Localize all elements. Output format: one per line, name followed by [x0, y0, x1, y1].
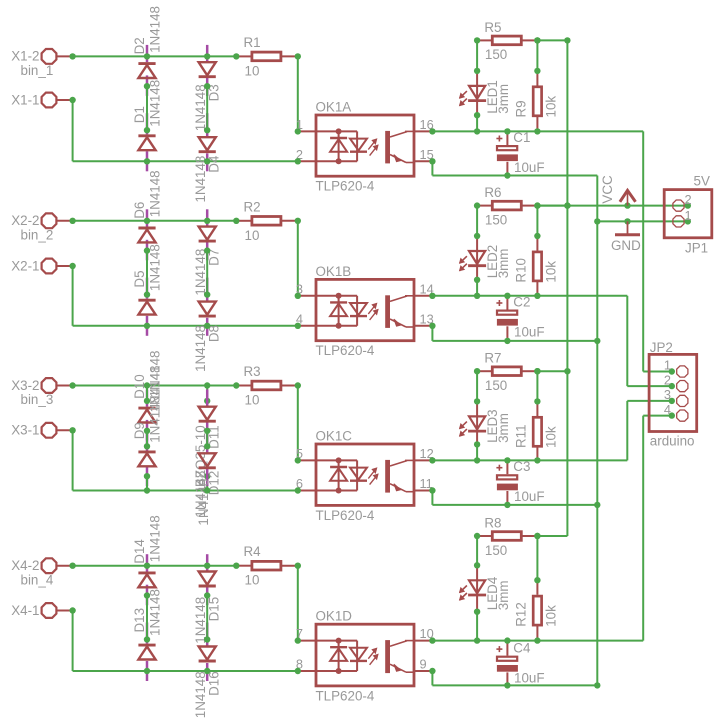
value 10: [245, 573, 260, 588]
wire top rail: [73, 55, 237, 57]
value 10uF: [514, 324, 545, 339]
value 150: [485, 47, 507, 62]
svg-text:R2: R2: [244, 199, 261, 214]
value 3mm: [496, 413, 511, 443]
wire: [536, 40, 538, 71]
label GND: [611, 238, 641, 253]
label R10: [513, 258, 528, 283]
svg-text:X2-1: X2-1: [11, 258, 39, 273]
connector pad X4-2: [42, 558, 73, 573]
junction: [534, 37, 570, 539]
label LED4: [485, 576, 500, 610]
wire ch1 to JP2 pin1: [643, 131, 672, 371]
capacitor C4: [496, 641, 518, 686]
label 5V: [694, 174, 710, 189]
value 10: [245, 393, 260, 408]
svg-text:TLP620-4: TLP620-4: [316, 179, 375, 194]
label D14: [132, 539, 147, 564]
pin 9: [420, 657, 427, 672]
connector pad X4-1: [42, 603, 73, 618]
diode D16: [199, 647, 216, 662]
junction: [429, 158, 435, 164]
label R7: [484, 351, 501, 366]
value 3mm: [496, 84, 511, 114]
power symbol VCC: [620, 190, 636, 205]
svg-text:D13: D13: [132, 608, 147, 633]
resistor R2: [236, 217, 297, 226]
value 10: [245, 63, 260, 78]
value 1N4148: [193, 156, 208, 203]
label R3: [244, 364, 261, 379]
wire: [536, 536, 538, 580]
wire: [147, 386, 207, 401]
value 1N4148: [147, 515, 162, 562]
junction: [144, 83, 150, 133]
wire mid B: [206, 251, 208, 295]
value 1N4148 duplicate: [147, 365, 162, 412]
wire mid A: [146, 251, 148, 295]
value 10k: [544, 96, 559, 118]
junction: [429, 293, 435, 299]
junction: [295, 457, 301, 494]
junction: [144, 158, 211, 164]
label OK1A: [316, 100, 352, 115]
svg-text:X4-1: X4-1: [11, 603, 39, 618]
wire to opto pin: [297, 386, 299, 461]
junction: [534, 577, 540, 583]
pin 2: [685, 192, 692, 207]
svg-text:C1: C1: [513, 130, 530, 145]
svg-text:1: 1: [664, 358, 671, 373]
label R6: [484, 185, 501, 200]
diode D4: [199, 137, 216, 152]
label D11: [206, 425, 221, 449]
junction: [204, 428, 210, 450]
junction: [69, 218, 75, 224]
value 10k: [544, 261, 559, 283]
svg-text:150: 150: [485, 543, 507, 558]
wire top rail: [73, 220, 237, 222]
label X4-2: [11, 558, 39, 573]
junction: [564, 202, 631, 224]
svg-text:3mm: 3mm: [496, 249, 511, 279]
junction: [474, 609, 480, 644]
wire VCC vertical: [537, 40, 567, 536]
junction: [295, 563, 301, 569]
label D8: [206, 325, 221, 342]
svg-text:10k: 10k: [544, 96, 559, 118]
svg-text:D1: D1: [132, 106, 147, 123]
wire ch3 to JP2 pin3: [627, 401, 672, 461]
wire to cap rail: [432, 326, 597, 341]
pin 5: [296, 446, 303, 461]
svg-text:VCC: VCC: [600, 175, 615, 204]
wire opto out rail: [432, 295, 627, 297]
connector pad X1-1: [42, 93, 73, 108]
junction: [534, 233, 540, 239]
value TLP620-4: [316, 179, 375, 194]
svg-text:10: 10: [245, 573, 260, 588]
junction: [144, 247, 150, 297]
svg-text:X1-1: X1-1: [11, 92, 39, 107]
junction: [69, 563, 75, 569]
resistor R4: [236, 561, 297, 570]
svg-text:10: 10: [245, 393, 260, 408]
svg-text:bin_4: bin_4: [21, 572, 54, 587]
wire X-1 stub: [73, 100, 298, 161]
label OK1C: [316, 429, 353, 444]
junction: [474, 202, 480, 208]
pin 10: [420, 626, 434, 641]
label X2-2: [11, 213, 39, 228]
led LED4: [460, 565, 487, 611]
junction: [474, 233, 480, 239]
optocoupler OK1C: [298, 444, 433, 505]
svg-text:D5: D5: [132, 270, 147, 287]
label X2-1: [11, 258, 39, 273]
svg-text:R12: R12: [513, 602, 528, 627]
diode D3: [199, 62, 216, 76]
junction: [144, 382, 211, 388]
junction: [233, 382, 239, 388]
junction: [534, 368, 540, 374]
wire: [536, 206, 538, 236]
diode D12: [199, 453, 216, 468]
junction: [429, 457, 435, 463]
resistor R8: [477, 532, 537, 541]
led LED1: [460, 71, 487, 115]
pin 1: [296, 117, 303, 132]
diode D16 pins: [206, 623, 209, 682]
junction: [144, 398, 211, 404]
wire mid B: [206, 86, 208, 130]
wire: [476, 115, 478, 131]
wire: [476, 612, 478, 641]
svg-text:D16: D16: [206, 671, 221, 696]
wire: [476, 206, 478, 236]
label LED3: [485, 409, 500, 443]
junction: [534, 293, 540, 299]
label D1: [132, 106, 147, 123]
label D12: [206, 471, 221, 496]
label X1-1: [11, 92, 39, 107]
svg-text:R5: R5: [484, 20, 501, 35]
net name bin_2: [21, 227, 54, 242]
junction: [504, 457, 510, 508]
svg-text:2: 2: [664, 372, 671, 387]
connector pad X2-1: [42, 259, 73, 274]
diode D1: [138, 136, 155, 150]
svg-text:R4: R4: [244, 544, 262, 559]
label LED2: [485, 245, 500, 279]
value BZQ35-10: [193, 425, 208, 487]
svg-text:bin_1: bin_1: [21, 63, 54, 78]
label R5: [484, 20, 501, 35]
value 10k: [544, 426, 559, 448]
svg-text:3mm: 3mm: [496, 84, 511, 114]
resistor R5: [477, 36, 537, 45]
label D6: [132, 202, 147, 219]
label D5: [132, 270, 147, 287]
junction: [504, 128, 510, 179]
label X4-1: [11, 603, 39, 618]
value 1N4148: [147, 80, 162, 127]
wire ch2 to JP2 pin2: [627, 296, 672, 386]
svg-text:1N4148: 1N4148: [147, 515, 162, 562]
connector pad X3-1: [42, 423, 73, 438]
svg-text:R10: R10: [513, 258, 528, 283]
net name bin_1: [21, 63, 54, 78]
junction: [233, 563, 239, 569]
junction: [295, 293, 301, 329]
junction: [504, 637, 510, 688]
svg-text:X4-2: X4-2: [11, 558, 39, 573]
svg-text:10: 10: [245, 228, 260, 243]
svg-text:10uF: 10uF: [514, 160, 545, 175]
wire GND rail to JP1: [597, 220, 688, 222]
connector JP1: [664, 190, 712, 238]
svg-text:arduino: arduino: [650, 434, 695, 449]
junction: [534, 128, 540, 134]
junction: [594, 338, 600, 689]
wire to cap rail: [432, 161, 597, 175]
value TLP620-4: [316, 343, 375, 358]
capacitor C3: [496, 460, 518, 505]
svg-text:bin_2: bin_2: [21, 227, 54, 242]
svg-text:X3-2: X3-2: [11, 378, 39, 393]
pin 1: [685, 208, 692, 223]
svg-text:3mm: 3mm: [496, 413, 511, 443]
diode D15 pins: [206, 554, 209, 605]
value JP1: [685, 240, 708, 255]
label D4: [206, 155, 221, 173]
diode D9 pins: [146, 429, 149, 486]
diode D11 pins: [206, 389, 209, 440]
pin 1: [664, 358, 671, 373]
value 1N4148: [193, 671, 208, 718]
wire opto out rail: [432, 459, 627, 461]
label C2: [513, 295, 530, 310]
svg-text:OK1D: OK1D: [316, 609, 353, 624]
junction: [534, 398, 540, 404]
junction: [429, 668, 435, 674]
wire: [476, 280, 478, 296]
junction: [474, 68, 480, 74]
label OK1B: [316, 264, 352, 279]
junction: [669, 368, 675, 419]
svg-text:1N4148: 1N4148: [147, 170, 162, 217]
pin 6: [296, 476, 303, 491]
diode D1 pins: [146, 113, 149, 171]
svg-text:OK1B: OK1B: [316, 264, 352, 279]
svg-text:D2: D2: [132, 37, 147, 54]
connector pad X1-2: [42, 49, 73, 64]
junction: [69, 263, 75, 269]
junction: [69, 382, 75, 388]
pin 4: [664, 402, 671, 417]
junction: [534, 68, 540, 74]
power symbol GND: [615, 221, 640, 234]
svg-text:10uF: 10uF: [514, 489, 545, 504]
wire to opto pin: [297, 566, 299, 641]
junction: [144, 592, 150, 642]
value 1N4148: [147, 244, 162, 291]
value 10uF: [514, 670, 545, 685]
diode D7 pins: [206, 209, 209, 260]
diode D5 pins: [146, 278, 149, 336]
wire mid B: [206, 431, 208, 447]
wire X-1 stub: [73, 430, 298, 490]
pin 2: [664, 372, 671, 387]
junction: [144, 668, 211, 674]
svg-text:X2-2: X2-2: [11, 213, 39, 228]
value 1N4148: [193, 325, 208, 372]
wire GND vertical: [596, 176, 598, 686]
junction: [233, 218, 239, 224]
svg-text:3mm: 3mm: [496, 580, 511, 610]
svg-text:R3: R3: [244, 364, 261, 379]
svg-text:10k: 10k: [544, 426, 559, 448]
label R11: [513, 424, 528, 448]
label C4: [513, 641, 531, 656]
junction: [474, 37, 480, 43]
junction: [69, 97, 75, 103]
pin 13: [420, 311, 434, 326]
pin 14: [420, 281, 434, 296]
svg-text:1: 1: [685, 208, 692, 223]
junction: [474, 368, 480, 374]
junction: [144, 473, 211, 479]
svg-text:10uF: 10uF: [514, 670, 545, 685]
junction: [144, 563, 211, 569]
resistor R6: [477, 201, 537, 210]
label D2: [132, 37, 147, 54]
wire X-1 stub: [73, 611, 298, 672]
svg-text:JP1: JP1: [685, 240, 708, 255]
wire: [476, 40, 478, 71]
pin 7: [296, 626, 303, 641]
value 1N4148: [147, 396, 162, 443]
svg-text:TLP620-4: TLP620-4: [316, 508, 375, 523]
value 1N4148: [193, 84, 208, 131]
svg-text:10: 10: [245, 63, 260, 78]
svg-text:TLP620-4: TLP620-4: [316, 343, 375, 358]
pin 3: [664, 387, 671, 402]
value 10: [245, 228, 260, 243]
label R12: [513, 602, 528, 627]
label VCC: [600, 175, 615, 204]
junction: [474, 112, 480, 135]
svg-text:TLP620-4: TLP620-4: [316, 688, 375, 703]
junction: [69, 53, 75, 59]
value arduino: [650, 434, 695, 449]
connector pad X2-2: [42, 213, 73, 228]
diode D15: [199, 572, 216, 587]
junction: [474, 533, 480, 539]
junction: [534, 37, 540, 43]
wire: [476, 371, 478, 401]
resistor R7: [477, 367, 537, 376]
junction: [429, 128, 435, 134]
svg-text:X3-1: X3-1: [11, 423, 39, 438]
diode D13: [138, 645, 155, 659]
svg-text:150: 150: [485, 47, 507, 62]
label D9: [132, 422, 147, 439]
wire mid A: [146, 86, 148, 130]
diode D14: [138, 573, 155, 587]
pin 16: [420, 117, 434, 132]
value 150: [485, 212, 507, 227]
wire X-1 stub: [73, 266, 298, 326]
svg-text:C2: C2: [513, 295, 530, 310]
junction: [474, 441, 480, 463]
junction: [204, 83, 210, 133]
label R4: [244, 544, 262, 559]
junction: [204, 247, 210, 297]
svg-text:R7: R7: [484, 351, 501, 366]
diode D2: [138, 64, 155, 78]
svg-text:OK1A: OK1A: [316, 100, 352, 115]
svg-text:10uF: 10uF: [514, 324, 545, 339]
capacitor C2: [496, 296, 518, 341]
connector JP2: [649, 354, 697, 431]
value 1N4148 duplicate: [196, 479, 211, 526]
svg-text:4: 4: [664, 402, 671, 417]
capacitor C1: [496, 131, 518, 175]
junction: [144, 323, 211, 329]
junction: [204, 592, 210, 642]
svg-text:2: 2: [685, 192, 692, 207]
diode D10 pins: [146, 389, 149, 440]
svg-text:R9: R9: [513, 100, 528, 117]
junction: [144, 218, 211, 224]
label D7: [206, 249, 221, 266]
diode D8 pins: [206, 278, 209, 336]
label D10: [132, 374, 147, 399]
resistor R11: [533, 401, 541, 460]
junction: [144, 53, 211, 59]
svg-text:D14: D14: [132, 539, 147, 564]
wire: [476, 536, 478, 565]
wire: [147, 476, 207, 490]
resistor R10: [533, 236, 541, 296]
label D13: [132, 608, 147, 633]
svg-text:5V: 5V: [694, 174, 710, 189]
value 1N4148: [147, 6, 162, 53]
svg-text:OK1C: OK1C: [316, 429, 353, 444]
svg-text:150: 150: [485, 378, 507, 393]
wire to cap rail: [432, 491, 597, 505]
label D15: [206, 597, 221, 622]
diode D3 pins: [206, 45, 209, 96]
junction: [429, 637, 435, 643]
value 10k: [544, 605, 559, 627]
svg-text:C4: C4: [513, 641, 531, 656]
pin 4: [296, 311, 303, 326]
net name bin_3: [21, 392, 54, 407]
optocoupler OK1A: [298, 115, 433, 176]
junction: [534, 533, 540, 539]
wire to opto pin: [297, 56, 299, 131]
resistor R3: [236, 381, 297, 390]
value 1N4148: [193, 597, 208, 644]
wire VCC rail to JP1: [537, 205, 687, 207]
diode D5: [138, 300, 155, 314]
svg-text:3: 3: [664, 387, 671, 402]
junction: [534, 457, 540, 463]
wire to cap rail: [432, 671, 597, 685]
label D3: [206, 84, 221, 101]
